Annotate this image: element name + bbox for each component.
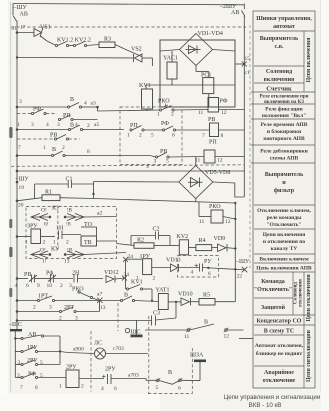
relay RP2 box	[195, 150, 244, 164]
svg-text:Реле времени АПВ: Реле времени АПВ	[261, 122, 308, 128]
contact 2N	[60, 271, 103, 290]
svg-text:фильтр: фильтр	[274, 187, 295, 194]
svg-text:ЛС: ЛС	[94, 341, 102, 347]
node 15	[235, 56, 250, 76]
svg-text:5: 5	[40, 360, 43, 366]
bridge VD5-VD8	[92, 157, 244, 202]
svg-text:РКО: РКО	[158, 99, 170, 105]
svg-text:5: 5	[156, 385, 159, 391]
svg-text:9: 9	[37, 283, 40, 289]
svg-text:VD1-VD4: VD1-VD4	[198, 31, 223, 37]
svg-text:АВ: АВ	[20, 12, 28, 18]
trip coil YAT1	[151, 288, 181, 319]
rectifier block box	[160, 40, 235, 107]
svg-text:3: 3	[154, 159, 157, 165]
svg-text:реле команды: реле команды	[267, 215, 303, 221]
svg-text:11: 11	[184, 334, 190, 340]
page frame left	[10, 2, 12, 392]
right rail	[243, 16, 245, 197]
capacitor RU polarized	[178, 256, 236, 278]
row V rail y107	[16, 97, 99, 111]
svg-text:а3: а3	[91, 101, 96, 107]
svg-text:а900: а900	[73, 347, 84, 353]
svg-text:KV1.2 KV2.2: KV1.2 KV2.2	[57, 38, 91, 44]
rail 1RT y300.5	[16, 294, 100, 311]
svg-text:11: 11	[198, 110, 204, 116]
svg-text:–ШС: –ШС	[8, 322, 22, 328]
svg-text:РУ: РУ	[204, 259, 212, 265]
table texts	[254, 16, 312, 384]
diode VD9	[214, 236, 236, 252]
pins row y147	[18, 145, 65, 151]
terminal SHS mid	[125, 320, 142, 337]
svg-text:1: 1	[43, 145, 46, 151]
svg-text:VD12: VD12	[104, 270, 119, 276]
counter PC1	[196, 66, 214, 108]
svg-text:22: 22	[237, 274, 243, 280]
svg-text:О!: О!	[41, 208, 47, 214]
dashed box APV	[26, 207, 117, 259]
svg-text:а1: а1	[12, 26, 17, 32]
svg-text:РКО: РКО	[209, 204, 221, 210]
svg-text:2: 2	[87, 123, 90, 129]
wire return top box	[17, 57, 134, 60]
rail row 2N y278.5	[16, 277, 28, 280]
svg-text:2Н: 2Н	[72, 271, 80, 277]
resistor R5	[199, 293, 235, 306]
svg-text:ВКВ - 10 кВ: ВКВ - 10 кВ	[249, 402, 282, 409]
svg-text:5: 5	[151, 133, 154, 139]
breaker AV left	[13, 4, 28, 23]
svg-text:2: 2	[33, 305, 36, 311]
stub avtomat otkl	[239, 338, 254, 340]
svg-text:и отключения по: и отключения по	[263, 239, 306, 245]
svg-text:1: 1	[17, 122, 20, 128]
svg-text:3: 3	[146, 164, 149, 170]
svg-text:19: 19	[19, 185, 25, 191]
svg-text:7: 7	[20, 385, 23, 391]
svg-text:Команда: Команда	[261, 279, 284, 285]
resistor R2	[117, 238, 180, 249]
svg-text:2: 2	[60, 283, 63, 289]
svg-text:6!: 6!	[44, 222, 49, 228]
svg-text:2: 2	[43, 240, 46, 246]
resistor R3	[99, 37, 115, 48]
svg-text:включении на КЗ: включении на КЗ	[264, 100, 304, 105]
svg-text:6: 6	[114, 386, 117, 392]
svg-text:каналу ТУ: каналу ТУ	[271, 246, 298, 252]
relay 2RU coil	[59, 365, 104, 390]
dashed box interlock	[120, 107, 182, 165]
svg-text:РФ: РФ	[220, 99, 228, 105]
contact RV dashed row	[17, 133, 80, 141]
svg-text:1: 1	[25, 240, 28, 246]
svg-text:Рф: Рф	[46, 270, 53, 277]
key KU arrows row2	[31, 248, 126, 265]
lamp LS	[68, 341, 148, 360]
svg-text:13: 13	[64, 259, 70, 265]
contact RKO right	[98, 99, 209, 118]
pins row y124	[17, 122, 78, 128]
svg-text:и: и	[282, 180, 286, 186]
dashed box V signal	[191, 348, 193, 394]
svg-text:РФ: РФ	[161, 121, 169, 127]
resistor R4	[196, 238, 218, 251]
caption	[224, 394, 321, 409]
contact 1N	[51, 226, 81, 253]
svg-text:3: 3	[31, 122, 34, 128]
svg-text:Реле отключения при: Реле отключения при	[260, 95, 309, 100]
svg-text:1: 1	[53, 240, 56, 246]
svg-text:Реле деблокировки: Реле деблокировки	[260, 148, 308, 155]
svg-text:4: 4	[84, 101, 87, 107]
svg-text:20: 20	[18, 203, 24, 209]
svg-text:KV2: KV2	[177, 234, 189, 240]
svg-text:R4: R4	[199, 238, 206, 244]
diode VS2	[115, 45, 152, 67]
svg-text:КУ: КУ	[51, 247, 60, 253]
svg-text:схемы АПВ: схемы АПВ	[270, 156, 299, 162]
node a1 17	[12, 25, 26, 32]
svg-text:24: 24	[128, 254, 134, 260]
svg-text:KV1: KV1	[139, 83, 151, 89]
svg-text:6: 6	[172, 133, 175, 139]
resistor R1	[17, 190, 94, 201]
left main rail	[16, 23, 18, 330]
svg-text:!В: !В	[67, 208, 73, 214]
contact KV1 low	[126, 280, 152, 301]
relay coil YAC1	[163, 51, 178, 85]
svg-text:5: 5	[166, 159, 169, 165]
svg-text:2: 2	[171, 112, 174, 118]
relay RKO box	[199, 202, 235, 226]
row rail y155	[16, 147, 150, 170]
svg-text:12: 12	[217, 158, 223, 164]
svg-text:а2: а2	[97, 211, 102, 217]
svg-text:Шинки управления,: Шинки управления,	[256, 16, 312, 22]
svg-text:2РУ: 2РУ	[105, 367, 116, 373]
svg-text:отключение: отключение	[263, 378, 296, 384]
wire rail y201 right	[94, 199, 237, 302]
svg-text:Защитой: Защитой	[261, 304, 286, 311]
svg-text:34: 34	[124, 272, 130, 278]
svg-text:6: 6	[26, 283, 29, 289]
svg-text:В: В	[168, 370, 172, 376]
contacts KV1.2 KV2.2	[47, 38, 99, 47]
svg-text:повторного АПВ: повторного АПВ	[263, 136, 305, 142]
node 24 vertical	[123, 254, 133, 289]
svg-text:R5: R5	[203, 293, 210, 299]
svg-text:2: 2	[139, 133, 142, 139]
contact RP mid	[127, 123, 162, 139]
svg-text:РВ: РВ	[50, 133, 57, 139]
contact RF row	[17, 107, 57, 115]
svg-text:В: В	[70, 97, 74, 103]
svg-text:с703: с703	[113, 346, 124, 352]
svg-text:–ШУ: –ШУ	[13, 5, 28, 11]
svg-text:6: 6	[208, 271, 211, 277]
svg-text:С3: С3	[153, 311, 160, 317]
svg-text:3: 3	[19, 99, 22, 105]
table: right label column	[251, 11, 315, 388]
svg-text:Реле фиксации: Реле фиксации	[265, 106, 303, 113]
svg-text:Цепи включения: Цепи включения	[263, 232, 306, 238]
svg-text:ТВ: ТВ	[84, 240, 92, 246]
contact V signal	[156, 370, 201, 392]
svg-text:7: 7	[202, 133, 205, 139]
svg-text:Цепи управления и сигнализации: Цепи управления и сигнализации	[224, 394, 321, 401]
svg-text:8: 8	[87, 149, 90, 155]
svg-text:Автомат отключен,: Автомат отключен,	[255, 343, 304, 349]
svg-text:РП: РП	[130, 123, 138, 129]
svg-text:Включение ключем: Включение ключем	[259, 257, 308, 263]
contact RP row	[58, 113, 97, 121]
svg-text:В: В	[70, 123, 74, 129]
svg-text:а7: а7	[97, 292, 102, 298]
svg-text:Цепи отключения: Цепи отключения	[306, 274, 312, 321]
contact RF low	[37, 270, 73, 290]
svg-text:включения: включения	[264, 77, 295, 83]
svg-text:В: В	[52, 147, 56, 153]
contact RF mid	[161, 121, 210, 139]
svg-text:10: 10	[47, 283, 53, 289]
capacitor C2	[131, 227, 170, 246]
svg-text:В: В	[204, 320, 208, 326]
svg-text:1: 1	[59, 384, 62, 390]
breaker AV right	[231, 4, 245, 17]
svg-text:1: 1	[127, 133, 130, 139]
svg-text:4: 4	[191, 270, 194, 276]
svg-text:В схему ТС: В схему ТС	[264, 329, 295, 335]
page frame right	[320, 0, 322, 392]
svg-text:11: 11	[199, 219, 205, 225]
svg-text:6: 6	[178, 386, 181, 392]
scan mark 3	[9, 247, 12, 257]
svg-text:РВ: РВ	[24, 272, 31, 278]
rail 2RT y311.5	[16, 301, 100, 322]
relay coil KV2	[177, 234, 196, 255]
svg-text:!8: !8	[66, 222, 71, 228]
relay RV box	[198, 98, 244, 124]
svg-text:7: 7	[18, 145, 21, 151]
dashed verticals signal	[90, 331, 92, 392]
svg-text:3: 3	[49, 305, 52, 311]
svg-text:12: 12	[225, 219, 231, 225]
diode VD13	[126, 254, 200, 282]
svg-text:2: 2	[66, 240, 69, 246]
contact 1RU	[15, 345, 84, 353]
dashed separator y166	[11, 165, 244, 167]
svg-text:Соленоид: Соленоид	[266, 69, 292, 75]
svg-text:1!: 1!	[42, 259, 47, 265]
svg-text:КУ: КУ	[52, 206, 61, 212]
svg-text:4: 4	[46, 122, 49, 128]
rail y320.5 with C3	[16, 311, 176, 326]
svg-text:13: 13	[100, 305, 106, 311]
svg-text:1РТ: 1РТ	[38, 294, 48, 300]
long rail y171	[17, 170, 245, 172]
svg-text:В: В	[124, 293, 128, 299]
contact RV right	[150, 149, 204, 165]
svg-text:8: 8	[221, 133, 224, 139]
svg-text:РВ: РВ	[208, 117, 215, 123]
scan mark 1	[9, 127, 12, 138]
svg-text:Аварийное: Аварийное	[264, 369, 294, 376]
svg-text:15: 15	[245, 56, 251, 62]
svg-text:Счетчик: Счетчик	[266, 86, 292, 93]
svg-text:положения "Вкл": положения "Вкл"	[262, 113, 307, 119]
svg-text:17: 17	[20, 25, 26, 31]
rotated column labels	[294, 38, 313, 382]
svg-text:4: 4	[101, 386, 104, 392]
svg-text:4: 4	[15, 283, 18, 289]
relay coil KV1	[139, 83, 153, 111]
contact RF signal	[15, 372, 66, 392]
svg-text:2: 2	[62, 145, 65, 151]
svg-text:YAT1: YAT1	[156, 288, 170, 294]
svg-text:РП: РП	[209, 140, 217, 146]
scan mark 4	[9, 288, 12, 297]
contact AV signal	[15, 332, 60, 365]
capacitor 2RU polarized	[101, 367, 128, 393]
svg-text:2: 2	[81, 384, 84, 390]
svg-text:Выпрямитель: Выпрямитель	[260, 36, 299, 42]
svg-text:а5: а5	[94, 122, 99, 128]
contactor TO TV	[81, 222, 117, 246]
svg-text:YAC1: YAC1	[163, 56, 178, 62]
svg-text:и блокировки: и блокировки	[267, 128, 302, 135]
key KU arrows row1	[31, 206, 117, 251]
svg-text:1Н: 1Н	[56, 226, 64, 232]
relay 3RU coil	[16, 224, 55, 246]
svg-text:VD13: VD13	[166, 258, 181, 264]
svg-text:VD9: VD9	[214, 236, 226, 242]
svg-text:VD10: VD10	[178, 292, 193, 298]
contact RV low	[15, 272, 51, 289]
diode VS1	[16, 25, 51, 42]
node 22	[235, 259, 250, 280]
bridge VD1-VD4	[160, 31, 235, 66]
svg-text:1: 1	[157, 112, 160, 118]
wire inner bottom	[146, 84, 235, 86]
svg-text:VD5-VD8: VD5-VD8	[205, 170, 230, 176]
svg-text:отключения: отключения	[299, 279, 304, 307]
scan mark 2	[9, 219, 12, 228]
svg-text:3: 3	[57, 122, 60, 128]
svg-text:с.в.: с.в.	[275, 44, 284, 50]
svg-text:блинкер не поднят: блинкер не поднят	[256, 350, 303, 357]
svg-text:12: 12	[224, 334, 230, 340]
bus -SHS	[8, 322, 22, 378]
svg-text:"Отключить": "Отключить"	[266, 222, 301, 228]
svg-text:Выпрямитель: Выпрямитель	[265, 172, 304, 178]
node a703	[128, 373, 157, 381]
svg-text:Цепь включения АПВ: Цепь включения АПВ	[256, 266, 312, 272]
node 20	[16, 200, 24, 209]
svg-text:–ШУ: –ШУ	[235, 259, 250, 265]
svg-text:АВ: АВ	[231, 10, 239, 16]
svg-text:2: 2	[153, 276, 156, 282]
svg-text:с1: с1	[245, 70, 250, 76]
svg-text:VS2: VS2	[131, 47, 142, 53]
contact 2RU signal	[15, 358, 60, 366]
row rail y129.5	[16, 122, 124, 131]
dashed box top (APV lock)	[11, 26, 246, 28]
contact V trip	[100, 293, 159, 302]
contact V TS row	[145, 320, 244, 341]
svg-text:5: 5	[40, 373, 43, 379]
bus SHZA	[190, 353, 206, 381]
capacitor C1	[35, 177, 94, 199]
svg-text:8: 8	[35, 385, 38, 391]
svg-text:Цепи сигнализации: Цепи сигнализации	[306, 329, 312, 382]
diode VD10	[178, 292, 199, 306]
svg-text:3: 3	[17, 373, 20, 379]
node 19	[16, 181, 25, 191]
diode VD12	[104, 270, 129, 283]
svg-text:"Отключить": "Отключить"	[254, 287, 292, 293]
svg-text:Отключение ключем,: Отключение ключем,	[257, 208, 311, 214]
bus -SHU top	[13, 4, 245, 12]
svg-text:Цепи включения: Цепи включения	[306, 38, 312, 83]
svg-text:а703: а703	[128, 373, 139, 379]
contact RKO low + node a7	[72, 287, 106, 312]
svg-text:12: 12	[221, 110, 227, 116]
svg-text:VS1: VS1	[40, 25, 51, 31]
relay RP box	[202, 123, 244, 146]
svg-text:3: 3	[18, 360, 21, 366]
svg-text:Конденсатор СО: Конденсатор СО	[257, 319, 302, 325]
bus +SHU	[15, 170, 29, 183]
svg-text:автомат: автомат	[273, 24, 295, 30]
svg-text:KV1: KV1	[131, 280, 143, 286]
